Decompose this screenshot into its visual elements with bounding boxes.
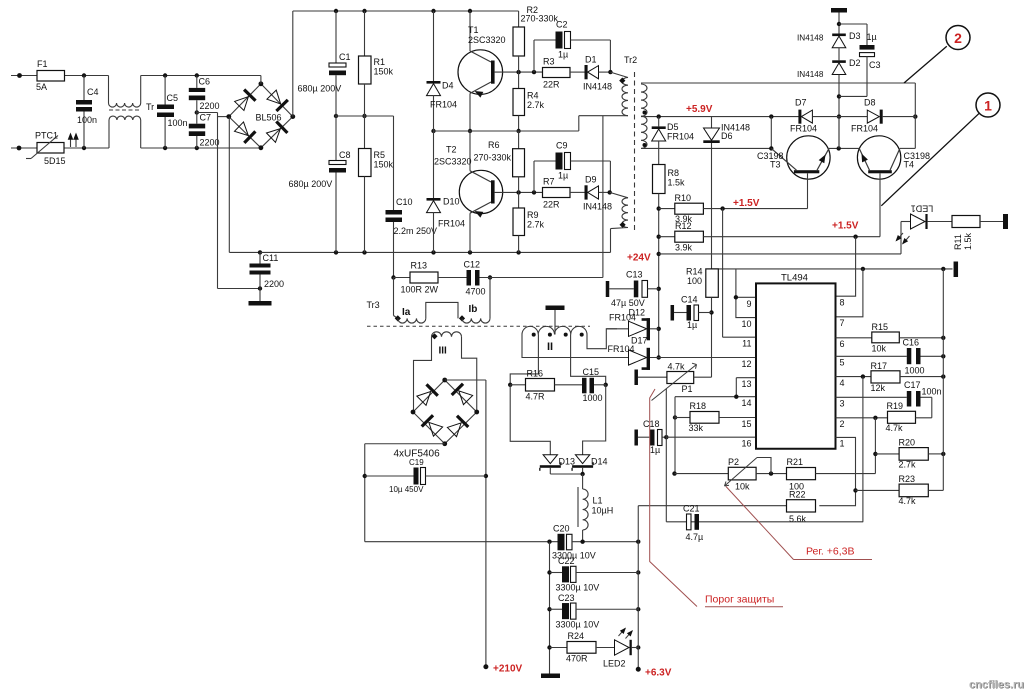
svg-text:2SC3320: 2SC3320 (434, 157, 472, 167)
svg-text:cncfiles.ru: cncfiles.ru (969, 679, 1024, 690)
svg-text:6: 6 (840, 339, 845, 349)
svg-text:100n: 100n (168, 118, 188, 128)
svg-text:5: 5 (840, 358, 845, 368)
svg-text:R24: R24 (568, 631, 585, 641)
svg-text:1µ: 1µ (558, 50, 568, 60)
svg-text:100R 2W: 100R 2W (401, 285, 439, 295)
svg-text:4.7µ: 4.7µ (686, 532, 704, 542)
svg-text:4.7k: 4.7k (668, 362, 686, 372)
svg-text:R6: R6 (488, 140, 500, 150)
svg-text:R22: R22 (789, 490, 806, 500)
svg-text:L1: L1 (593, 496, 603, 506)
svg-text:FR104: FR104 (667, 132, 694, 142)
svg-text:100: 100 (687, 276, 702, 286)
svg-text:T4: T4 (904, 160, 915, 170)
svg-text:D9: D9 (585, 175, 597, 185)
svg-text:LED1: LED1 (911, 204, 934, 214)
svg-text:D12: D12 (629, 308, 646, 318)
svg-text:PTC1: PTC1 (35, 131, 58, 141)
svg-text:10: 10 (741, 319, 751, 329)
svg-text:10k: 10k (735, 482, 750, 492)
svg-text:C10: C10 (396, 197, 413, 207)
svg-text:C15: C15 (583, 367, 600, 377)
svg-text:C21: C21 (683, 504, 700, 514)
svg-text:270-330k: 270-330k (521, 14, 559, 24)
svg-text:5.6k: 5.6k (789, 514, 807, 524)
svg-text:1: 1 (984, 98, 992, 114)
svg-text:2200: 2200 (200, 101, 220, 111)
svg-text:D8: D8 (864, 98, 876, 108)
svg-text:T1: T1 (468, 25, 479, 35)
svg-text:D14: D14 (591, 457, 608, 467)
svg-text:D1: D1 (585, 55, 597, 65)
svg-text:R17: R17 (871, 361, 888, 371)
svg-text:R18: R18 (690, 401, 707, 411)
svg-text:R23: R23 (899, 474, 916, 484)
svg-text:12: 12 (741, 359, 751, 369)
svg-text:Рег. +6,3В: Рег. +6,3В (806, 546, 855, 558)
svg-text:1µ: 1µ (867, 32, 877, 42)
svg-text:C11: C11 (263, 253, 279, 263)
svg-text:4: 4 (840, 378, 845, 388)
svg-text:R5: R5 (374, 150, 386, 160)
svg-text:16: 16 (741, 439, 751, 449)
svg-text:R14: R14 (686, 267, 703, 277)
svg-text:R4: R4 (527, 91, 539, 101)
svg-text:III: III (439, 346, 448, 357)
svg-text:1000: 1000 (583, 393, 603, 403)
svg-text:C9: C9 (556, 141, 568, 151)
svg-text:12k: 12k (871, 383, 886, 393)
svg-text:T2: T2 (446, 145, 457, 155)
svg-text:C17: C17 (904, 380, 921, 390)
svg-text:D10: D10 (443, 197, 460, 207)
svg-text:4.7R: 4.7R (526, 392, 546, 402)
svg-text:D7: D7 (795, 98, 807, 108)
svg-text:P1: P1 (682, 384, 693, 394)
svg-text:Ia: Ia (402, 307, 411, 318)
svg-text:R13: R13 (411, 261, 428, 271)
svg-text:D3: D3 (849, 31, 861, 41)
svg-text:LED2: LED2 (603, 659, 626, 669)
svg-text:3.9k: 3.9k (675, 243, 693, 253)
svg-text:R3: R3 (543, 57, 555, 67)
svg-text:+24V: +24V (627, 253, 651, 264)
svg-text:C23: C23 (558, 593, 575, 603)
svg-text:14: 14 (741, 398, 751, 408)
svg-text:FR104: FR104 (851, 124, 878, 134)
svg-text:+6.3V: +6.3V (645, 668, 672, 679)
svg-text:9: 9 (746, 299, 751, 309)
svg-text:13: 13 (741, 379, 751, 389)
svg-text:2.2m 250V: 2.2m 250V (394, 226, 438, 236)
svg-text:R21: R21 (787, 457, 804, 467)
svg-text:C3: C3 (869, 60, 881, 70)
svg-text:D2: D2 (849, 58, 861, 68)
svg-text:5A: 5A (36, 82, 47, 92)
svg-text:8: 8 (840, 298, 845, 308)
svg-text:R9: R9 (527, 210, 539, 220)
svg-text:+1.5V: +1.5V (733, 198, 760, 209)
svg-text:1µ: 1µ (558, 171, 568, 181)
svg-text:5D15: 5D15 (44, 156, 66, 166)
svg-text:IN4148: IN4148 (797, 70, 824, 79)
svg-text:IN4148: IN4148 (583, 202, 612, 212)
svg-text:+210V: +210V (493, 664, 523, 675)
svg-text:4.7k: 4.7k (886, 423, 904, 433)
svg-text:22R: 22R (543, 80, 560, 90)
svg-text:100n: 100n (77, 115, 97, 125)
svg-text:+5.9V: +5.9V (686, 104, 713, 115)
svg-text:C8: C8 (339, 150, 351, 160)
svg-text:II: II (547, 341, 553, 353)
svg-text:10µ 450V: 10µ 450V (389, 485, 424, 494)
svg-text:FR104: FR104 (790, 124, 817, 134)
svg-text:100n: 100n (922, 387, 942, 397)
svg-text:C7: C7 (200, 113, 212, 123)
svg-text:D4: D4 (442, 81, 454, 91)
svg-text:R8: R8 (668, 168, 680, 178)
svg-text:2200: 2200 (264, 279, 284, 289)
svg-text:T3: T3 (770, 160, 781, 170)
svg-text:7: 7 (840, 318, 845, 328)
svg-text:Tr2: Tr2 (624, 55, 637, 65)
svg-text:470R: 470R (566, 654, 588, 664)
svg-text:C6: C6 (199, 77, 211, 87)
svg-text:FR104: FR104 (430, 100, 457, 110)
svg-text:22R: 22R (543, 200, 560, 210)
svg-text:R16: R16 (527, 369, 544, 379)
svg-text:C22: C22 (558, 556, 575, 566)
svg-text:R12: R12 (675, 221, 692, 231)
svg-text:D6: D6 (721, 131, 733, 141)
svg-text:2.7k: 2.7k (899, 460, 917, 470)
svg-text:1.5k: 1.5k (668, 178, 686, 188)
svg-text:1µ: 1µ (687, 320, 697, 330)
svg-text:P2: P2 (728, 457, 739, 467)
svg-text:47µ 50V: 47µ 50V (611, 298, 645, 308)
svg-text:R15: R15 (872, 322, 889, 332)
svg-text:680µ 200V: 680µ 200V (289, 179, 333, 189)
svg-text:2: 2 (954, 30, 962, 46)
svg-text:C16: C16 (903, 338, 920, 348)
svg-text:1µ: 1µ (650, 445, 660, 455)
svg-text:C5: C5 (167, 93, 179, 103)
svg-text:R10: R10 (675, 193, 692, 203)
svg-text:C12: C12 (464, 260, 481, 270)
svg-text:F1: F1 (37, 59, 48, 69)
svg-text:Порог защиты: Порог защиты (705, 594, 774, 606)
svg-text:FR104: FR104 (438, 219, 465, 229)
svg-text:R1: R1 (374, 57, 386, 67)
svg-text:10µH: 10µH (592, 506, 614, 516)
svg-text:11: 11 (742, 339, 751, 349)
svg-text:10k: 10k (872, 344, 887, 354)
svg-text:680µ 200V: 680µ 200V (298, 84, 342, 94)
svg-text:C18: C18 (643, 419, 660, 429)
svg-text:D17: D17 (631, 336, 648, 346)
svg-text:R7: R7 (543, 177, 555, 187)
svg-text:IN4148: IN4148 (797, 34, 824, 43)
svg-text:D13: D13 (559, 457, 576, 467)
svg-text:1000: 1000 (905, 366, 925, 376)
svg-text:3300µ 10V: 3300µ 10V (556, 619, 600, 629)
svg-text:C20: C20 (553, 524, 570, 534)
svg-text:2.7k: 2.7k (527, 220, 545, 230)
svg-text:R19: R19 (887, 401, 904, 411)
svg-text:R11: R11 (953, 234, 963, 250)
svg-text:Tr3: Tr3 (367, 300, 380, 310)
svg-text:3: 3 (840, 399, 845, 409)
svg-text:C4: C4 (87, 87, 99, 97)
svg-text:1.5k: 1.5k (963, 232, 973, 250)
svg-text:2.7k: 2.7k (527, 100, 545, 110)
svg-text:4700: 4700 (466, 287, 486, 297)
svg-text:C19: C19 (409, 458, 424, 467)
svg-text:150k: 150k (374, 160, 394, 170)
svg-text:IN4148: IN4148 (583, 82, 612, 92)
svg-text:Ib: Ib (469, 304, 478, 315)
svg-text:33k: 33k (689, 423, 704, 433)
svg-text:C1: C1 (339, 52, 351, 62)
svg-text:C2: C2 (556, 20, 568, 30)
svg-text:3300µ 10V: 3300µ 10V (556, 583, 600, 593)
svg-text:C14: C14 (681, 295, 698, 305)
svg-text:R20: R20 (899, 438, 916, 448)
svg-text:D5: D5 (667, 122, 679, 132)
svg-text:BL506: BL506 (256, 113, 282, 123)
svg-text:15: 15 (741, 419, 751, 429)
svg-text:4.7k: 4.7k (899, 496, 917, 506)
svg-text:C13: C13 (626, 270, 643, 280)
svg-text:2200: 2200 (200, 138, 220, 148)
svg-text:1: 1 (840, 439, 845, 449)
svg-text:FR104: FR104 (608, 344, 635, 354)
svg-text:Tr: Tr (146, 102, 154, 112)
svg-text:TL494: TL494 (781, 273, 808, 284)
svg-text:2SC3320: 2SC3320 (468, 35, 506, 45)
svg-text:150k: 150k (374, 67, 394, 77)
svg-text:2: 2 (840, 419, 845, 429)
svg-text:270-330k: 270-330k (474, 153, 512, 163)
svg-text:+1.5V: +1.5V (832, 221, 859, 232)
